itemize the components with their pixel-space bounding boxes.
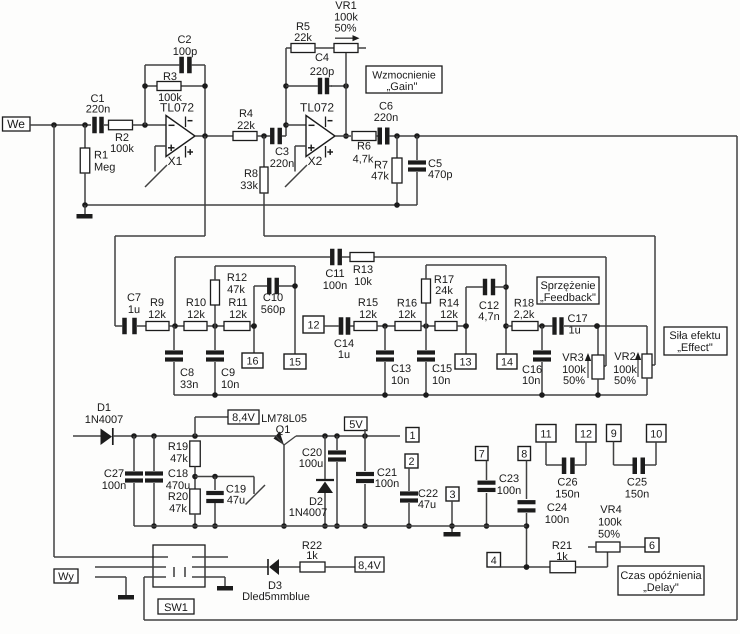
- svg-text:Sprzężenie: Sprzężenie: [540, 280, 595, 292]
- svg-text:16: 16: [246, 356, 258, 368]
- svg-text:1u: 1u: [128, 304, 140, 316]
- svg-text:C23: C23: [499, 473, 519, 485]
- svg-text:2,2k: 2,2k: [514, 309, 535, 321]
- svg-text:„Feedback": „Feedback": [540, 292, 596, 304]
- svg-text:12k: 12k: [359, 309, 377, 321]
- svg-text:50%: 50%: [334, 23, 356, 35]
- svg-text:100n: 100n: [102, 480, 126, 492]
- svg-text:1: 1: [409, 430, 415, 442]
- svg-text:R8: R8: [244, 168, 258, 180]
- svg-text:C11: C11: [325, 268, 344, 280]
- svg-text:24k: 24k: [435, 285, 453, 297]
- svg-text:R11: R11: [228, 297, 247, 309]
- svg-text:D1: D1: [97, 402, 111, 414]
- svg-text:R9: R9: [150, 297, 164, 309]
- svg-text:33k: 33k: [240, 180, 258, 192]
- svg-text:2: 2: [408, 456, 414, 468]
- svg-text:220p: 220p: [310, 66, 334, 78]
- svg-text:13: 13: [459, 357, 471, 369]
- svg-text:C10: C10: [263, 292, 283, 304]
- svg-text:R15: R15: [358, 297, 378, 309]
- svg-text:C13: C13: [391, 363, 411, 375]
- svg-text:47k: 47k: [227, 284, 245, 296]
- svg-text:C18: C18: [168, 468, 188, 480]
- svg-text:Q1: Q1: [276, 424, 291, 436]
- svg-text:100n: 100n: [497, 485, 521, 497]
- svg-text:47u: 47u: [418, 499, 436, 511]
- svg-text:12: 12: [580, 428, 592, 440]
- svg-text:„Effect": „Effect": [677, 342, 713, 354]
- svg-text:47k: 47k: [170, 453, 188, 465]
- svg-text:VR3: VR3: [562, 352, 583, 364]
- svg-text:„Gain": „Gain": [387, 81, 418, 93]
- svg-text:TL072: TL072: [300, 101, 334, 115]
- svg-text:Meg: Meg: [94, 162, 115, 174]
- svg-text:12k: 12k: [229, 309, 247, 321]
- svg-text:1k: 1k: [556, 551, 568, 563]
- svg-text:220n: 220n: [270, 158, 294, 170]
- svg-text:C9: C9: [221, 367, 235, 379]
- svg-text:10n: 10n: [522, 375, 540, 387]
- svg-text:C15: C15: [432, 363, 452, 375]
- svg-text:3: 3: [449, 489, 455, 501]
- svg-text:Czas opóźnienia: Czas opóźnienia: [620, 570, 702, 582]
- svg-text:C3: C3: [275, 146, 289, 158]
- svg-text:R19: R19: [168, 441, 188, 453]
- svg-text:220n: 220n: [374, 112, 398, 124]
- svg-text:R14: R14: [439, 298, 459, 310]
- svg-text:R18: R18: [514, 298, 534, 310]
- svg-text:„Delay": „Delay": [643, 582, 679, 594]
- svg-text:22k: 22k: [294, 32, 312, 44]
- svg-text:C4: C4: [315, 52, 329, 64]
- svg-text:150n: 150n: [625, 489, 649, 501]
- svg-text:5V: 5V: [349, 419, 363, 431]
- svg-text:C25: C25: [627, 477, 647, 489]
- svg-text:12k: 12k: [398, 309, 416, 321]
- svg-text:R6: R6: [357, 141, 371, 153]
- svg-text:R13: R13: [353, 264, 373, 276]
- svg-text:100k: 100k: [598, 517, 622, 529]
- svg-text:11: 11: [540, 428, 551, 440]
- svg-text:C26: C26: [557, 477, 577, 489]
- svg-text:R4: R4: [239, 108, 253, 120]
- svg-text:12: 12: [307, 320, 319, 332]
- svg-text:1N4007: 1N4007: [289, 507, 328, 519]
- svg-text:X2: X2: [308, 154, 323, 168]
- svg-text:SW1: SW1: [164, 602, 188, 614]
- svg-text:8,4V: 8,4V: [232, 412, 255, 424]
- svg-text:C17: C17: [568, 313, 588, 325]
- svg-text:C7: C7: [127, 292, 141, 304]
- svg-text:R16: R16: [397, 298, 417, 310]
- svg-text:4,7n: 4,7n: [478, 311, 499, 323]
- svg-text:47k: 47k: [169, 503, 187, 515]
- svg-text:VR1: VR1: [335, 0, 356, 12]
- svg-text:100n: 100n: [323, 280, 347, 292]
- svg-text:VR4: VR4: [600, 504, 621, 516]
- svg-text:C6: C6: [379, 101, 393, 113]
- svg-text:1u: 1u: [338, 349, 350, 361]
- svg-text:33n: 33n: [180, 379, 198, 391]
- svg-text:R3: R3: [163, 71, 177, 83]
- svg-text:C24: C24: [547, 502, 567, 514]
- svg-text:VR2: VR2: [614, 351, 635, 363]
- svg-text:50%: 50%: [563, 375, 585, 387]
- svg-text:7: 7: [479, 449, 485, 461]
- svg-text:100k: 100k: [158, 92, 182, 104]
- svg-text:10n: 10n: [221, 379, 239, 391]
- svg-text:9: 9: [611, 428, 617, 440]
- svg-text:C2: C2: [177, 34, 191, 46]
- svg-text:50%: 50%: [598, 529, 620, 541]
- svg-text:100k: 100k: [110, 143, 134, 155]
- svg-text:1k: 1k: [306, 550, 318, 562]
- svg-text:560p: 560p: [261, 304, 285, 316]
- svg-text:10n: 10n: [391, 375, 409, 387]
- svg-text:14: 14: [501, 357, 513, 369]
- svg-text:R12: R12: [227, 272, 247, 284]
- svg-text:Wzmocnienie: Wzmocnienie: [372, 70, 436, 82]
- svg-text:1N4007: 1N4007: [85, 414, 124, 426]
- svg-text:12k: 12k: [187, 309, 205, 321]
- svg-text:100u: 100u: [299, 458, 323, 470]
- svg-text:12k: 12k: [440, 309, 458, 321]
- svg-text:R1: R1: [94, 150, 108, 162]
- svg-text:100n: 100n: [545, 514, 569, 526]
- svg-text:4,7k: 4,7k: [353, 154, 374, 166]
- svg-text:220n: 220n: [86, 104, 110, 116]
- svg-text:10k: 10k: [354, 276, 372, 288]
- svg-text:470p: 470p: [428, 169, 452, 181]
- svg-text:12k: 12k: [148, 309, 166, 321]
- svg-text:X1: X1: [168, 154, 183, 168]
- svg-text:R10: R10: [186, 297, 206, 309]
- svg-text:47k: 47k: [371, 171, 389, 183]
- svg-text:8: 8: [521, 449, 527, 461]
- svg-text:50%: 50%: [614, 375, 636, 387]
- svg-text:6: 6: [649, 540, 655, 552]
- svg-text:10: 10: [650, 428, 662, 440]
- svg-text:Siła efektu: Siła efektu: [669, 330, 720, 342]
- svg-text:4: 4: [491, 555, 497, 567]
- svg-text:15: 15: [289, 357, 301, 369]
- svg-text:R20: R20: [168, 491, 188, 503]
- svg-text:150n: 150n: [555, 489, 579, 501]
- svg-text:C27: C27: [104, 468, 124, 480]
- svg-text:100n: 100n: [375, 478, 399, 490]
- svg-text:8,4V: 8,4V: [358, 560, 381, 572]
- svg-text:10n: 10n: [432, 375, 450, 387]
- svg-text:We: We: [7, 117, 25, 131]
- svg-text:Wy: Wy: [58, 571, 74, 583]
- svg-text:Dled5mmblue: Dled5mmblue: [242, 591, 310, 603]
- svg-text:100p: 100p: [173, 46, 197, 58]
- svg-text:47u: 47u: [227, 495, 245, 507]
- svg-text:C8: C8: [180, 367, 194, 379]
- svg-text:22k: 22k: [237, 120, 255, 132]
